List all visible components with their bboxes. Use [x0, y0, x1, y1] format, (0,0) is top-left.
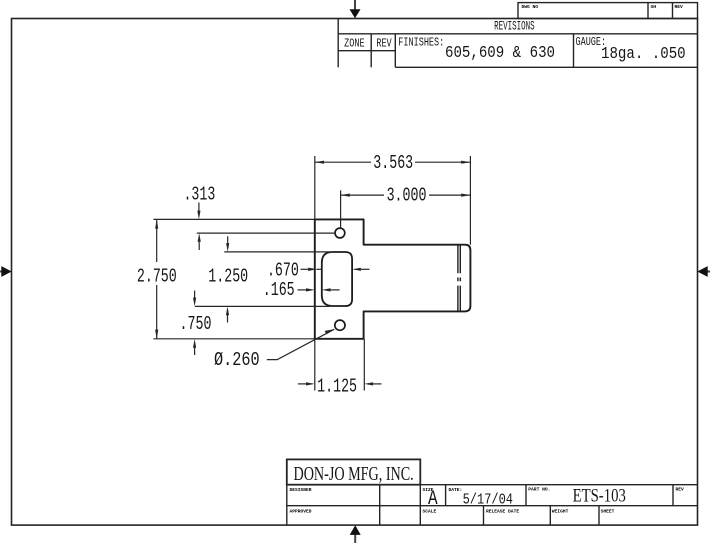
- svg-text:DATE:: DATE:: [449, 487, 463, 493]
- svg-text:.750: .750: [180, 313, 212, 335]
- svg-text:3.000: 3.000: [387, 184, 427, 206]
- dimension 2.750: [156, 219, 158, 338]
- svg-text:.313: .313: [183, 183, 215, 205]
- top screw hole: [335, 228, 345, 238]
- svg-text:.165: .165: [263, 279, 295, 301]
- latch cutout: [322, 252, 352, 306]
- title block: don-jo company box: [287, 459, 421, 484]
- svg-text:DON-JO MFG, INC.: DON-JO MFG, INC.: [293, 462, 413, 485]
- svg-text:3.563: 3.563: [373, 152, 413, 174]
- left centering arrow: [0, 266, 12, 277]
- svg-text:DWG NO: DWG NO: [522, 4, 539, 10]
- svg-text:WEIGHT: WEIGHT: [552, 509, 569, 515]
- svg-text:REV: REV: [376, 38, 392, 51]
- svg-text:SH: SH: [651, 4, 657, 10]
- svg-text:Ø.260: Ø.260: [214, 350, 260, 371]
- svg-text:SHEET: SHEET: [601, 509, 615, 515]
- svg-text:18ga. .050: 18ga. .050: [601, 44, 686, 64]
- svg-text:REVISIONS: REVISIONS: [494, 20, 534, 35]
- svg-text:APPROVED: APPROVED: [290, 509, 312, 515]
- title block grid lines: [287, 485, 698, 525]
- svg-text:1.250: 1.250: [208, 265, 248, 287]
- bottom screw hole: [335, 320, 345, 330]
- svg-text:RELEASE DATE: RELEASE DATE: [486, 509, 519, 515]
- svg-text:1.125: 1.125: [317, 375, 357, 397]
- right centering arrow: [697, 266, 710, 277]
- dimension 3.000: [341, 194, 471, 196]
- svg-text:DESIGNER: DESIGNER: [290, 487, 312, 493]
- svg-text:PART NO.: PART NO.: [528, 487, 550, 493]
- svg-text:ZONE: ZONE: [344, 38, 364, 51]
- svg-text:605,609 & 630: 605,609 & 630: [445, 43, 555, 63]
- part outline (strike plate): [315, 219, 471, 338]
- extension lines: [153, 156, 470, 391]
- svg-text:REV: REV: [675, 4, 684, 10]
- svg-text:2.750: 2.750: [137, 265, 177, 287]
- top-right dwg-no strip: [518, 3, 698, 19]
- svg-text:FINISHES:: FINISHES:: [398, 37, 444, 50]
- svg-text:ETS-103: ETS-103: [573, 485, 626, 506]
- revisions table lines: [338, 19, 697, 68]
- svg-text:5/17/04: 5/17/04: [463, 492, 513, 509]
- svg-text:A: A: [428, 489, 438, 511]
- svg-text:REV: REV: [676, 487, 685, 493]
- dimension 3.563: [315, 161, 471, 163]
- bend line (double, broken): [458, 245, 460, 310]
- top centering arrow: [350, 0, 361, 18]
- bottom centering arrow: [350, 525, 361, 543]
